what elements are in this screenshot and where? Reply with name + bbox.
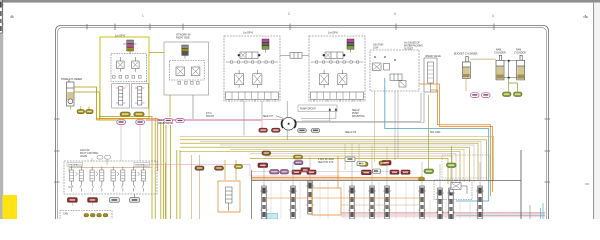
loader bank section 3 <box>111 167 125 192</box>
bottom cyan elements <box>267 214 278 220</box>
small relief valve column left of main bank <box>226 187 233 211</box>
brake control valve module <box>370 50 419 91</box>
page right gray edge line <box>593 3 594 219</box>
svg-text:4 SPL W/ JACK: 4 SPL W/ JACK <box>318 158 335 161</box>
loader bank section 4 <box>132 167 146 192</box>
wire module D down to pump <box>244 101 336 136</box>
olive wire left bus b <box>100 117 153 220</box>
pilot valve stack top of yellow box <box>123 40 137 54</box>
svg-text:RAM: RAM <box>516 49 521 52</box>
svg-text:PILOT CONTROL: PILOT CONTROL <box>80 153 99 155</box>
spool 2 <box>135 87 144 106</box>
zone number marks above frame <box>142 12 494 18</box>
svg-text:3: 3 <box>394 12 396 16</box>
wire magenta pills down to loader bank <box>121 125 140 162</box>
svg-text:STEM CYLINDER: STEM CYLINDER <box>61 77 82 81</box>
main bank pill row B <box>270 170 280 174</box>
orange pilot wire left 2 <box>165 163 167 220</box>
loader bank label right <box>134 162 150 166</box>
pilot control valve module (left) <box>224 36 280 102</box>
svg-text:PUMP: PUMP <box>352 113 359 115</box>
wire note to bank <box>92 158 107 165</box>
spool 1 <box>116 87 125 106</box>
ram green pill 1 <box>503 92 512 96</box>
stem cylinder pill 1 <box>77 110 85 114</box>
solenoid valve 2 secondary <box>191 67 200 76</box>
orange bus wire 3 <box>265 156 452 184</box>
wire module F to bank spool 2 <box>394 91 396 160</box>
main bank top rails orange <box>252 178 425 180</box>
inner dashed manifold of yellow box <box>111 54 147 82</box>
fold mark left-lower <box>68 186 72 188</box>
wire bucket down <box>465 78 467 91</box>
svg-text:WATER PACKING: WATER PACKING <box>404 45 423 48</box>
blue drop right edge <box>540 208 542 219</box>
pink pill mid 1 <box>164 119 172 123</box>
pink pilot wires to pump <box>146 119 282 128</box>
pink pill mid 2 <box>176 119 184 123</box>
olive stub wires above relief <box>225 160 236 180</box>
ram cylinder 1 <box>496 55 504 80</box>
loader bank maroon pill 2 <box>88 198 98 203</box>
fold mark top-left <box>10 15 14 18</box>
page left gray band <box>0 3 3 219</box>
svg-text:1: 1 <box>142 14 144 18</box>
bucket pink pill 1 <box>471 93 480 98</box>
svg-text:SEAL KIT: SEAL KIT <box>263 115 274 118</box>
loader bank note pills <box>97 156 103 160</box>
svg-text:1st SP-6: 1st SP-6 <box>115 34 126 38</box>
orange loop around relief column <box>218 181 240 212</box>
pink wire lower <box>146 165 340 177</box>
pill inner text marks <box>70 129 409 200</box>
green wires <box>429 95 452 169</box>
stem cylinder <box>67 79 75 106</box>
orange loop in main bank <box>312 156 341 215</box>
svg-text:SOL GRD: SOL GRD <box>430 132 441 134</box>
main bank section divider wires <box>271 182 470 219</box>
brake valve element 1 <box>373 63 382 71</box>
svg-text:SEE W: SEE W <box>352 110 360 112</box>
tan return wire <box>180 136 494 180</box>
port squares secondary valve <box>178 82 199 85</box>
wires bus to bank spools <box>345 144 387 171</box>
ram green pill 2 <box>514 92 523 96</box>
loader control valve group (yellow box) <box>100 37 149 119</box>
loader bank section 2 <box>90 167 104 192</box>
wire secondary valve down left <box>169 95 171 117</box>
loader bank maroon pill 1 <box>68 198 78 203</box>
tank wires from check valve (gray) <box>421 93 424 123</box>
tan rail lower in bank <box>341 204 420 206</box>
wire stem cylinder to right <box>74 87 97 120</box>
olive left vertical wires group <box>155 118 180 220</box>
aux valve elements <box>450 183 467 195</box>
olive bus wire 5 <box>250 158 448 184</box>
schematic border frame outer <box>56 26 549 240</box>
zone tick marks on top border <box>87 24 494 31</box>
wire ram junction down <box>509 78 518 92</box>
solenoid valve 2 in yellow box <box>132 57 140 72</box>
cyan drop right edge <box>542 203 544 219</box>
loader bank gray pill 4 <box>130 198 140 203</box>
secondary steering valve box <box>164 42 209 95</box>
stem cylinder pill 2 <box>86 110 94 114</box>
orange rail lower in bank <box>265 197 422 199</box>
fold mark top-right <box>583 15 588 18</box>
svg-text:1st SP-6: 1st SP-6 <box>328 31 339 35</box>
stubs below loader pills <box>73 202 93 206</box>
pilot supply wire from brake valve (blue) <box>385 78 489 201</box>
olive bus wire 1 <box>180 140 487 180</box>
wire from yellow box to secondary valve <box>149 52 164 54</box>
page top gray band <box>0 0 600 3</box>
svg-text:LOW: LOW <box>373 48 379 50</box>
svg-text:VALVE: VALVE <box>80 155 88 158</box>
svg-text:FRONT: FRONT <box>206 116 215 118</box>
brake valve spool <box>390 74 402 81</box>
spool section box 1 <box>112 84 130 108</box>
svg-text:P.T.O.: P.T.O. <box>206 113 212 115</box>
svg-text:TRIUNFALDO: TRIUNFALDO <box>135 164 149 167</box>
main bank pill row baseline <box>252 171 412 173</box>
wire stem cylinder lower <box>70 92 99 120</box>
yellow box internal olive pill 2 <box>134 112 144 117</box>
svg-text:CHECK VALVE: CHECK VALVE <box>425 55 441 58</box>
wire bucket to ram <box>470 58 496 60</box>
svg-text:JACK W/: JACK W/ <box>80 149 90 152</box>
olive wire left bus a <box>97 119 117 121</box>
schematic border frame inner <box>58 28 547 240</box>
gray bus wire 2 <box>220 145 474 182</box>
svg-text:2: 2 <box>288 12 290 16</box>
wire pill4 up <box>134 194 136 198</box>
main bank top rail black <box>252 180 522 182</box>
pilot stack secondary valve <box>182 45 189 59</box>
gray bus wire 3 <box>250 154 456 185</box>
loader bank section 1 <box>70 167 84 192</box>
inner dashed box secondary valve <box>169 60 204 80</box>
bucket cylinder <box>462 57 470 79</box>
zone tick marks on side borders <box>54 119 550 182</box>
arrowheads module E down <box>329 108 338 111</box>
olive bus wire 2 <box>180 143 478 180</box>
bottom pink band <box>341 213 545 218</box>
cab control dashed box <box>60 211 112 223</box>
pump pill 1 <box>259 128 268 132</box>
svg-text:3rd CAUSE OF: 3rd CAUSE OF <box>404 42 420 45</box>
orange pressure wire 2 <box>419 84 493 192</box>
wire secondary valve down right <box>192 95 194 119</box>
svg-text:SEE HYD SYS: SEE HYD SYS <box>318 162 334 164</box>
olive bus wire 4 <box>180 152 460 185</box>
olive bus wire 3 <box>180 147 470 182</box>
interconnect valve between modules <box>280 52 309 58</box>
pump pill 4 <box>311 129 320 133</box>
brake valve element 2 <box>384 64 390 71</box>
gray bus wire 1 <box>200 141 481 180</box>
pump-to-valve wires gray horizontal <box>295 121 424 122</box>
pump pill 3 <box>298 129 307 133</box>
pump pill 2 <box>272 128 281 132</box>
port squares row yellow box <box>113 76 142 79</box>
gray vertical line right <box>529 205 531 219</box>
svg-text:TRIUNFALDO: TRIUNFALDO <box>68 164 82 167</box>
olive wire mid verticals <box>191 155 199 219</box>
svg-text:RAM: RAM <box>496 49 501 52</box>
loader control valve bank <box>64 161 157 194</box>
wire module F mid <box>397 91 399 158</box>
loader bank gray pill 3 <box>110 198 120 203</box>
svg-text:RIGHT SIDE: RIGHT SIDE <box>176 37 190 40</box>
main bank left edge <box>251 170 253 219</box>
solenoid valve 1 secondary <box>176 67 185 76</box>
loader bank internal tan rail <box>69 168 152 173</box>
yellow box internal olive pill 1 <box>120 112 130 117</box>
ram cylinder 2 <box>517 55 525 80</box>
svg-text:PUMP GROUP: PUMP GROUP <box>300 109 316 111</box>
hydraulic pump circle <box>281 101 296 140</box>
brake valve relief <box>399 81 406 88</box>
main bank right edge <box>520 150 522 219</box>
outer dashed box right <box>442 155 489 178</box>
svg-text:CAUTION: CAUTION <box>373 44 384 47</box>
tan bus wire 2 <box>230 149 464 182</box>
svg-text:4: 4 <box>492 14 494 18</box>
svg-text:CAB: CAB <box>63 213 68 216</box>
cab control elements <box>84 214 108 217</box>
loader bank label left <box>67 162 83 166</box>
spool section box 2 <box>131 84 148 108</box>
svg-text:SEE W OF: SEE W OF <box>345 132 357 134</box>
brown pills left of bank <box>195 166 204 170</box>
yellow sticker bottom-left <box>3 195 18 219</box>
magenta pill 2 below yellow box <box>136 120 145 124</box>
wire module F to bank spool 1 <box>374 91 376 162</box>
aux valve dashed box right <box>434 180 472 200</box>
pump detail text box <box>298 105 337 112</box>
check valve column <box>424 58 437 92</box>
svg-text:BUCKET CYLINDER: BUCKET CYLINDER <box>454 53 478 56</box>
main bank pill row A <box>258 163 268 167</box>
magenta pill left 1 <box>117 120 126 124</box>
svg-text:CYLINDER: CYLINDER <box>494 53 506 55</box>
solenoid valve 1 in yellow box <box>117 57 125 72</box>
svg-text:1st SP-6: 1st SP-6 <box>243 31 254 35</box>
main bank spools <box>0 0 4 33</box>
svg-text:CYLINDER: CYLINDER <box>514 53 526 55</box>
orange pilot wire left <box>96 119 158 171</box>
svg-text:MOUNTING: MOUNTING <box>352 116 365 118</box>
orange pressure wire 1 <box>431 90 491 196</box>
bucket pink pill 2 <box>482 93 491 98</box>
green pills right side <box>447 163 457 167</box>
ram interconnect wires <box>504 60 517 79</box>
small ports brake valve <box>374 56 396 61</box>
magenta pill 1 below yellow box <box>117 120 126 124</box>
pilot control valve module (right) <box>309 36 365 102</box>
fold mark right-lower <box>585 183 589 185</box>
magenta pill left 2 <box>136 120 145 124</box>
